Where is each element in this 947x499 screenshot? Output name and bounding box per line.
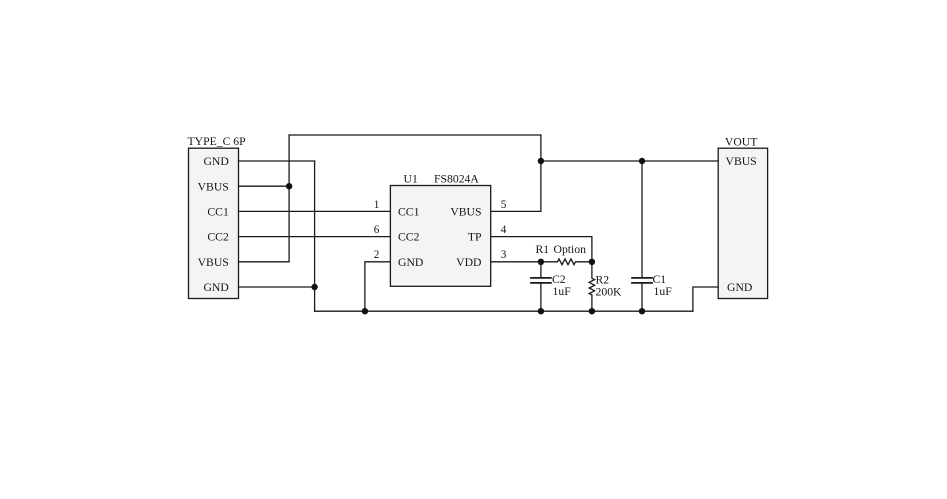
svg-text:6: 6 — [374, 224, 380, 236]
svg-text:5: 5 — [501, 199, 507, 211]
label IC pin name VDD — [456, 256, 481, 269]
label TYPE_C pin CC2 — [207, 231, 229, 244]
wire GND bottom pin of TYPE_C — [239, 286, 315, 288]
label TYPE_C pin GND (bottom) — [203, 281, 228, 294]
wire CC2 net — [239, 236, 391, 238]
svg-text:GND: GND — [727, 281, 752, 294]
label capacitor refdes C2 — [552, 273, 566, 286]
junction bottom rail at R2 — [589, 308, 595, 314]
svg-text:U1: U1 — [404, 173, 418, 186]
connector VOUT body — [718, 148, 767, 298]
junction VBUS pin at vertical — [286, 183, 292, 189]
label TYPE_C pin GND (top) — [203, 155, 228, 168]
wire IC pin 4 TP — [491, 237, 592, 262]
pin number 2 — [374, 249, 380, 261]
label IC pin name CC2 — [398, 231, 420, 244]
junction GND bottom pin at vertical — [311, 284, 317, 290]
label IC pin name VBUS — [450, 206, 481, 219]
svg-text:200K: 200K — [596, 285, 623, 298]
label VOUT pin GND — [727, 281, 752, 294]
pin number 4 — [501, 224, 507, 236]
junction VDD wire at R2 top — [589, 259, 595, 265]
pin number 6 — [374, 224, 380, 236]
label capacitor refdes C1 — [653, 273, 667, 286]
resistor R1 — [541, 259, 592, 265]
svg-text:GND: GND — [398, 256, 423, 269]
junction VBUS rail at pin5 vertical — [538, 158, 544, 164]
svg-text:1uF: 1uF — [654, 285, 673, 298]
label connector title TYPE_C 6P — [188, 135, 247, 148]
label capacitor C1 value 1uF — [654, 285, 673, 298]
wire GND top pin of TYPE_C — [239, 160, 315, 162]
label IC part FS8024A — [434, 173, 479, 186]
svg-text:CC1: CC1 — [398, 206, 420, 219]
svg-text:GND: GND — [203, 155, 228, 168]
junction VDD wire at C2 — [538, 259, 544, 265]
pin number 1 — [374, 199, 380, 211]
wire IC pin 3 VDD — [491, 261, 541, 263]
wire GND rail up to VOUT GND pin — [693, 287, 718, 311]
svg-text:VBUS: VBUS — [450, 206, 481, 219]
wire IC pin 5 VBUS up to top rail — [491, 135, 541, 211]
label VOUT pin VBUS — [726, 155, 757, 168]
svg-text:TP: TP — [468, 231, 482, 244]
svg-text:2: 2 — [374, 249, 380, 261]
junction bottom rail at C1 — [639, 308, 645, 314]
connector TYPE_C 6P body — [189, 148, 239, 298]
label connector title VOUT — [725, 136, 757, 149]
label IC refdes U1 — [404, 173, 418, 186]
svg-text:Option: Option — [554, 243, 587, 256]
wire GND net vertical from top GND pin down to bottom rail — [314, 161, 316, 311]
wire VBUS top rail — [289, 134, 541, 136]
label resistor R1 value Option — [554, 243, 587, 256]
svg-text:CC2: CC2 — [398, 231, 420, 244]
capacitor C1 — [632, 161, 652, 311]
wire CC1 net — [239, 210, 391, 212]
svg-text:FS8024A: FS8024A — [434, 173, 479, 186]
label IC pin name TP — [468, 231, 482, 244]
svg-text:VBUS: VBUS — [726, 155, 757, 168]
svg-text:1uF: 1uF — [553, 285, 572, 298]
label TYPE_C pin VBUS (upper) — [198, 180, 229, 193]
label IC pin name CC1 — [398, 206, 420, 219]
wire VBUS rail to VOUT — [541, 160, 718, 162]
label capacitor C2 value 1uF — [553, 285, 572, 298]
label TYPE_C pin VBUS (lower) — [198, 256, 229, 269]
svg-text:VBUS: VBUS — [198, 180, 229, 193]
wire VBUS bottom pin of TYPE_C — [239, 261, 290, 263]
svg-text:GND: GND — [203, 281, 228, 294]
svg-text:4: 4 — [501, 224, 507, 236]
svg-text:CC1: CC1 — [207, 206, 229, 219]
svg-text:TYPE_C 6P: TYPE_C 6P — [188, 135, 247, 148]
junction bottom rail at IC GND — [362, 308, 368, 314]
svg-text:1: 1 — [374, 199, 380, 211]
IC U1 FS8024A body — [390, 186, 490, 287]
svg-text:CC2: CC2 — [207, 231, 229, 244]
pin number 5 — [501, 199, 507, 211]
svg-text:VOUT: VOUT — [725, 136, 757, 149]
svg-text:VBUS: VBUS — [198, 256, 229, 269]
label resistor refdes R2 — [596, 274, 610, 287]
wire IC pin 2 GND to bottom rail — [365, 262, 391, 311]
wire bottom GND rail — [315, 310, 693, 312]
pin number 3 — [501, 249, 507, 261]
capacitor C2 — [531, 262, 551, 311]
junction bottom rail at C2 — [538, 308, 544, 314]
resistor R2 — [589, 262, 594, 311]
label resistor refdes R1 — [536, 243, 550, 256]
label IC pin name GND — [398, 256, 423, 269]
svg-text:R1: R1 — [536, 243, 550, 256]
label TYPE_C pin CC1 — [207, 206, 229, 219]
wire VBUS net vertical at left — [288, 135, 290, 262]
svg-text:VDD: VDD — [456, 256, 481, 269]
svg-text:3: 3 — [501, 249, 507, 261]
wire VBUS top pin of TYPE_C — [239, 185, 290, 187]
label resistor R2 value 200K — [596, 285, 623, 298]
junction VBUS rail at C1 — [639, 158, 645, 164]
